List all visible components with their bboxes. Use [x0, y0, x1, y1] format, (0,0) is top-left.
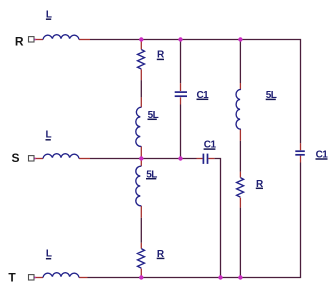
svg-text:S: S — [12, 151, 20, 165]
svg-text:L: L — [46, 248, 52, 259]
svg-text:L: L — [46, 130, 52, 141]
svg-text:R: R — [15, 34, 24, 48]
svg-text:T: T — [8, 270, 16, 284]
